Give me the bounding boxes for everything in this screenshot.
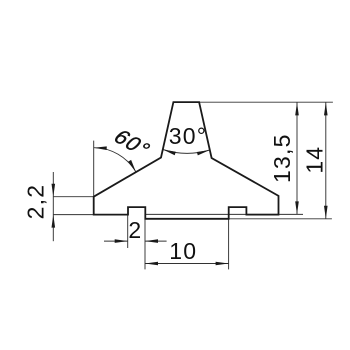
arrowhead 13,5 top <box>295 102 299 115</box>
svg-text:30°: 30° <box>169 123 207 149</box>
profile outline <box>94 102 279 219</box>
svg-text:2: 2 <box>128 217 142 243</box>
dimension line: 2 right segment <box>145 240 167 242</box>
extension line: 2,2 top <box>53 196 93 198</box>
arrowhead 14 top <box>324 102 328 115</box>
extension line: 2 left <box>127 215 129 248</box>
extension line: 2 right / 10 left <box>144 220 146 270</box>
dimension line: 10 <box>145 263 229 265</box>
dimension line: 13,5 <box>296 102 298 214</box>
svg-text:60°: 60° <box>108 126 156 161</box>
dimension arc: 60 deg <box>94 148 136 172</box>
arrowhead 60 deg at vertical <box>94 146 107 150</box>
extension line: 60 deg vertical reference <box>93 141 95 197</box>
svg-text:13,5: 13,5 <box>269 133 295 183</box>
arrowhead 10 right <box>216 262 229 266</box>
extension line: 10 right <box>228 220 230 270</box>
arrowhead 60 deg at slope <box>128 160 136 172</box>
arrowhead 2 right <box>145 239 158 243</box>
arrowhead 14 bottom <box>324 206 328 219</box>
svg-text:14: 14 <box>301 146 327 174</box>
dimension arc: 30 deg <box>163 150 210 154</box>
arrowhead 30 deg left <box>163 150 176 156</box>
arrowhead 13,5 bottom <box>295 201 299 214</box>
svg-text:10: 10 <box>169 238 197 264</box>
extension line: 2,2 bottom <box>53 214 93 216</box>
dimension line: 14 <box>325 102 327 218</box>
arrowhead 2,2 lower <box>52 215 56 228</box>
arrowhead 2,2 upper <box>52 184 56 197</box>
arrowhead 10 left <box>145 262 158 266</box>
svg-text:2,2: 2,2 <box>23 184 49 220</box>
extension line: top (13,5 and 14) <box>199 101 333 103</box>
dimension line: 2 left segment <box>104 240 128 242</box>
arrowhead 2 left <box>115 239 128 243</box>
dimension line: 2,2 <box>52 172 54 241</box>
extension line: 13,5 bottom <box>145 213 303 215</box>
extension line: 14 bottom <box>229 218 332 220</box>
arrowhead 30 deg right <box>197 150 210 155</box>
